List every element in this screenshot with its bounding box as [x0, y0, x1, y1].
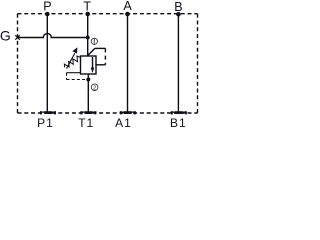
svg-text:G: G	[0, 28, 11, 44]
drain line to T1 (dashed)	[67, 79, 89, 81]
svg-text:T1: T1	[78, 116, 94, 130]
node B junction dot	[176, 12, 181, 17]
drain line vertical (dashed)	[66, 73, 68, 80]
wire T line upper	[87, 14, 89, 56]
port B1 (bottom face connection)	[171, 111, 187, 114]
wire B line	[177, 14, 179, 112]
svg-text:2: 2	[93, 85, 96, 91]
pilot line return to valve right side	[96, 64, 105, 66]
wire P line	[46, 14, 48, 112]
wire A line	[127, 14, 129, 112]
pilot line vertical (dashed)	[104, 48, 106, 64]
port marker 2 (orifice)	[91, 84, 98, 91]
plugged port G (cross)	[15, 35, 19, 39]
relief valve flow arrow	[91, 57, 95, 73]
port marker 1 (orifice)	[91, 38, 97, 44]
node T junction dot	[85, 12, 90, 17]
svg-text:P1: P1	[37, 116, 54, 130]
drain line from spring chamber	[67, 72, 81, 74]
svg-text:B: B	[174, 0, 182, 14]
relief valve V1 body	[81, 56, 97, 74]
adjustment arrow	[67, 47, 78, 68]
port T1 (bottom face connection)	[80, 111, 96, 114]
node drain-T1 junction dot	[86, 78, 90, 82]
port A1 (bottom face connection)	[120, 111, 136, 114]
svg-text:P: P	[43, 0, 51, 13]
svg-text:A1: A1	[115, 116, 132, 130]
pilot line horizontal at port 1	[95, 47, 106, 49]
pilot line (diagonal riser to port 1)	[88, 48, 95, 55]
port P1 (bottom face connection)	[40, 111, 56, 114]
svg-text:B1: B1	[170, 116, 187, 130]
svg-text:T: T	[83, 0, 91, 13]
wire G gauge line with crossover hop over P	[18, 34, 88, 38]
node G-T junction dot	[86, 36, 90, 40]
spring (adjustable)	[64, 56, 80, 67]
node A junction dot	[125, 12, 130, 17]
svg-text:A: A	[123, 0, 132, 13]
node P junction dot	[45, 12, 50, 17]
manifold plate boundary (dashed enclosure)	[18, 14, 198, 113]
wire T1 line lower	[87, 74, 89, 112]
